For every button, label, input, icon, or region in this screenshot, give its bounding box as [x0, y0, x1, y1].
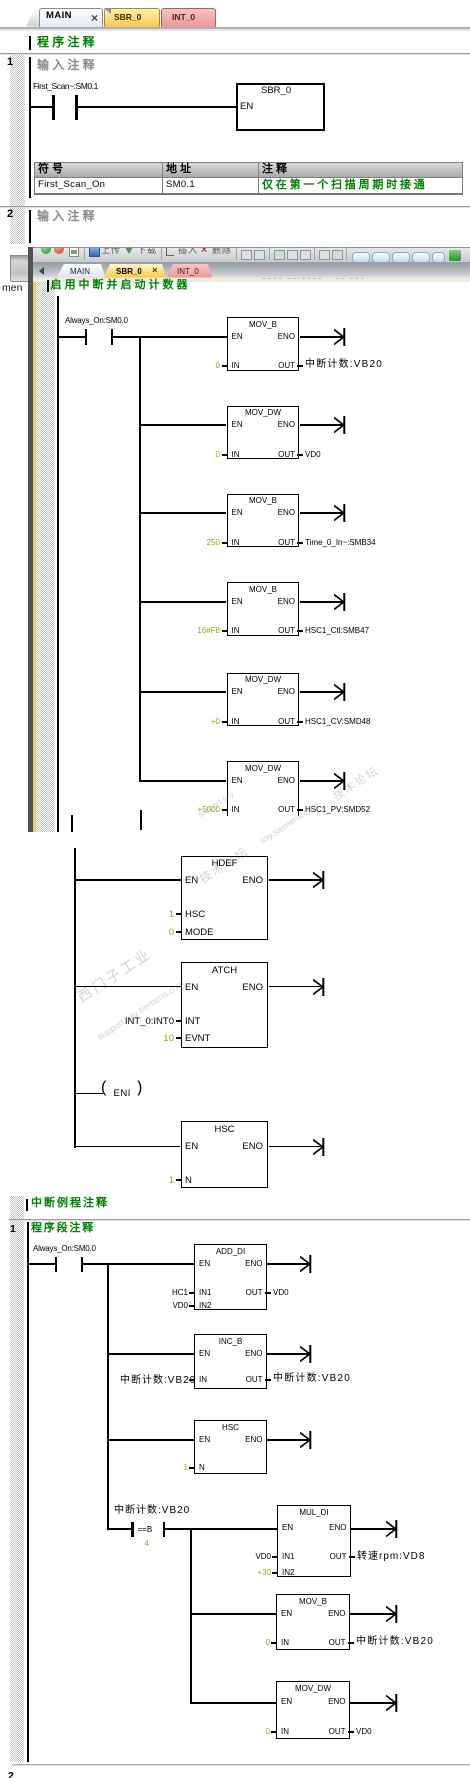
contact label Always_On:SM0.0: [65, 316, 128, 326]
pin OUT + operand 中断计数:VB20: [348, 1642, 354, 1644]
pale strip under tab bar: [33, 278, 470, 283]
network comment 输入注释: [37, 60, 98, 70]
left power rail: [74, 848, 76, 1148]
icon: red ball: [54, 244, 64, 254]
wire contact to MOV_B: [113, 336, 227, 338]
wire rail to contact: [29, 1263, 56, 1265]
pin IN1 + value VD0: [272, 1556, 277, 1558]
network separator 2: [0, 206, 470, 207]
tab MAIN (active): [39, 8, 103, 27]
icon: upload blue: [89, 246, 100, 257]
column separators: [162, 162, 163, 193]
icon red x: [201, 244, 207, 256]
wire sub branch to MOV_B EN: [191, 1613, 277, 1615]
pin OUT stub + operand: [297, 454, 303, 456]
network number 1: [10, 1224, 16, 1234]
rung continuation arrow: [334, 327, 346, 347]
symbol row: [38, 180, 105, 190]
function box MOV_DW: [227, 761, 300, 816]
nav arrow left: [39, 267, 44, 275]
rung continuation arrow: [334, 415, 346, 435]
network number 2 (cropped): [8, 1771, 14, 1778]
pin IN2 + value +30: [272, 1572, 277, 1574]
branch rail: [107, 1263, 109, 1530]
pin OUT stub + operand: [297, 365, 303, 367]
branch rail: [139, 336, 141, 782]
tab INT_0: [167, 264, 212, 278]
comparator contact bars: [131, 1522, 133, 1537]
wire branch to MOV_DW EN: [140, 424, 227, 426]
contact label Always_On:SM0.0: [33, 1244, 96, 1254]
sub branch rail: [190, 1528, 192, 1704]
wire branch to MOV_B EN: [140, 601, 227, 603]
text 上传: [101, 243, 121, 256]
watermark 技术论坛: [196, 842, 252, 887]
wire contact to ADD_DI: [83, 1263, 194, 1265]
wire sub branch to MOV_DW EN: [191, 1702, 277, 1704]
pin IN stub + value: [222, 542, 227, 544]
pin EN: [240, 102, 253, 112]
tab strip left notch: [26, 9, 39, 27]
contact Always_On: [85, 329, 87, 345]
pin EVNT + value 10: [176, 1037, 181, 1039]
table bottom shadow: [34, 194, 463, 196]
watermark support: [196, 789, 236, 819]
pin IN stub + value: [222, 721, 227, 723]
subroutine call box SBR_0: [236, 83, 325, 131]
pin OUT stub + operand: [297, 630, 303, 632]
separator: [84, 248, 85, 260]
pin INT + value INT_0:INT0: [176, 1020, 181, 1022]
wire contact to SBR_0 box: [78, 106, 237, 108]
icon: download green arrow: [125, 247, 133, 254]
pin IN + value 中断计数:VB20: [189, 1379, 194, 1381]
pin OUT + operand VD0: [265, 1292, 271, 1294]
text 下载: [137, 243, 157, 256]
watermark url: [95, 978, 185, 1042]
wire rail to ENI: [76, 1093, 103, 1095]
strip under tabs: [0, 27, 470, 30]
tab SBR_0 close x: [152, 266, 158, 276]
comment 启用中断并启动计数器: [51, 280, 191, 290]
icon insert: [166, 248, 174, 256]
text 插入: [178, 243, 198, 256]
separator: [161, 248, 162, 260]
ladder element icon group: [241, 250, 252, 260]
pin IN2 + value VD0: [189, 1305, 194, 1307]
symbol table header: [35, 163, 462, 178]
left power rail: [57, 296, 59, 832]
wire branch to MOV_DW EN: [140, 691, 227, 693]
network margin gutter: [10, 55, 25, 244]
wire rail to contact: [59, 336, 85, 338]
network 2 comment 输入注释: [37, 211, 98, 221]
icon: page: [69, 245, 79, 257]
pin IN + value 0: [271, 1731, 276, 1733]
pin HSC + value 1: [176, 913, 181, 915]
pin OUT stub + operand: [297, 809, 303, 811]
pin IN stub + value: [222, 809, 227, 811]
wire ENO to arrow: [269, 879, 323, 881]
contact Always_On: [55, 1257, 57, 1272]
pin OUT + operand 中断计数:VB20: [265, 1379, 271, 1381]
wire branch to comparator: [108, 1528, 132, 1530]
pin IN1 + value HC1: [189, 1292, 194, 1294]
pin OUT + operand 转速rpm:VD8: [349, 1556, 355, 1558]
separator: [236, 248, 237, 260]
tab MAIN: [57, 264, 105, 278]
dotted gutter: [36, 282, 55, 833]
comment 中断例程注释: [31, 1198, 109, 1208]
comment marker bar: [47, 280, 49, 292]
function box MOV_DW: [227, 673, 300, 727]
tab INT_0: [161, 8, 216, 27]
wire ENO to arrow: [267, 1263, 310, 1265]
bottom separator: [12, 1764, 470, 1765]
wire ENO out: [300, 691, 344, 693]
green icon: [449, 250, 461, 261]
side panel block remnant: [10, 255, 29, 282]
icon: green check ball: [41, 244, 51, 254]
comment marker bar: [26, 1199, 28, 1211]
function box MOV_B: [227, 494, 300, 548]
wire branch to INC_B EN: [108, 1353, 194, 1355]
watermark url 2: [258, 800, 321, 846]
wire branch to HSC EN: [108, 1439, 194, 1441]
label 中断计数:VB20: [114, 1505, 190, 1516]
tab bar background: [33, 263, 470, 278]
pin IN stub + value 0: [222, 365, 227, 367]
pin OUT + operand VD0: [348, 1731, 354, 1733]
watermark 西门子工业: [73, 943, 155, 1006]
yellow gutter edge: [33, 282, 36, 833]
comment text 程序注释: [37, 37, 98, 47]
contact label First_Scan~:SM0.1: [33, 81, 98, 91]
wire rail to ATCH EN: [76, 986, 181, 988]
rung continuation arrow: [300, 1254, 312, 1274]
header/row separator: [34, 177, 462, 178]
contact First_Scan_On: [52, 95, 55, 120]
toolbar strip (cropped): [33, 247, 470, 263]
network number 2: [7, 209, 13, 219]
margin gutter: [10, 1196, 25, 1762]
wire rail to contact: [30, 106, 53, 108]
wire ENO out: [300, 424, 344, 426]
symbol table: [34, 162, 463, 194]
sidebar text remnant: [2, 283, 22, 293]
network separator: [9, 1219, 470, 1220]
pin IN stub + value: [222, 454, 227, 456]
wire ENO to arrow: [300, 336, 344, 338]
pin OUT stub + operand: [297, 542, 303, 544]
left power rail network 2: [29, 210, 31, 243]
comment 程序段注释: [31, 1223, 95, 1233]
network number 1: [7, 57, 13, 67]
pin N + value 1: [176, 1179, 181, 1181]
wire ENO out: [300, 780, 344, 782]
cropped next-network rail remnants: [71, 815, 73, 832]
button pills: [352, 252, 370, 263]
rung continuation arrow: [334, 682, 346, 702]
dark vertical splitter bar: [28, 247, 34, 832]
text 删除: [212, 243, 232, 256]
wire rail to HDEF EN: [76, 879, 181, 881]
rung continuation arrow: [313, 870, 325, 890]
left power rail network 1: [29, 57, 31, 198]
left power rail: [27, 1222, 29, 1762]
comment marker bar: [29, 36, 31, 50]
function box MOV_DW: [227, 406, 300, 460]
function box MOV_B: [227, 582, 300, 636]
tab SBR_0: [104, 8, 160, 27]
wire branch to MOV_DW EN: [140, 780, 227, 782]
coil ENI: [101, 1083, 106, 1093]
rung continuation arrow: [334, 771, 346, 791]
pin IN stub + value: [222, 630, 227, 632]
comparator text ==B: [138, 1525, 153, 1535]
pin IN + value 0: [271, 1642, 276, 1644]
rung continuation arrow: [334, 503, 346, 523]
wire ENO out: [300, 512, 344, 514]
pin N + value 1: [189, 1467, 194, 1469]
wire ENO out: [300, 601, 344, 603]
cropped text sliver right: [262, 278, 462, 283]
pin MODE + value 0: [176, 931, 181, 933]
folded corner: [104, 8, 111, 14]
wire branch to MOV_B EN: [140, 512, 227, 514]
comparator value 4: [145, 1539, 149, 1549]
rung continuation arrow: [334, 592, 346, 612]
tab SBR_0 (active): [104, 264, 166, 278]
tab MAIN close x: [91, 13, 98, 23]
wire comparator to MUL_DI: [165, 1528, 277, 1530]
network separator 1: [0, 53, 470, 54]
watermark 技术论坛: [330, 762, 382, 804]
pin OUT stub + operand: [297, 721, 303, 723]
wire rail corner to HSC EN: [74, 1146, 180, 1148]
